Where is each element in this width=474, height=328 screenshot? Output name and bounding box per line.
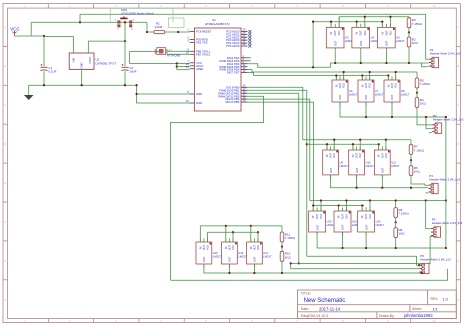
wire IN riser bbox=[312, 206, 314, 212]
resistor R1 21KOhm bbox=[147, 22, 165, 34]
svg-text:GND: GND bbox=[196, 92, 202, 96]
junction OUT bbox=[381, 187, 383, 189]
svg-text:1KΩ: 1KΩ bbox=[414, 170, 421, 174]
LM317 regulator U4 bbox=[352, 24, 379, 52]
wire bottom trunk to P5 pin1 bbox=[307, 256, 419, 265]
wire group3 OUT rail bbox=[331, 175, 429, 188]
svg-text:Sheet:: Sheet: bbox=[412, 307, 422, 311]
svg-text:G: G bbox=[457, 259, 459, 263]
wire top trunk to P1 bbox=[80, 13, 426, 15]
wire group5 riser upper bbox=[225, 226, 227, 242]
wire long bottom trunk bbox=[171, 269, 448, 280]
svg-text:IN: IN bbox=[361, 216, 364, 219]
wire PB5 to group4 IN rail bbox=[248, 102, 314, 205]
svg-text:PC6 RESET: PC6 RESET bbox=[196, 30, 212, 34]
wire ADJ rail to R11 bbox=[281, 226, 283, 231]
svg-text:OUT: OUT bbox=[330, 153, 333, 159]
svg-text:ADJ: ADJ bbox=[364, 30, 367, 35]
wire C2 to GND rail bbox=[124, 71, 126, 85]
svg-text:Header-Male 2.54_1x3: Header-Male 2.54_1x3 bbox=[430, 52, 461, 56]
svg-text:C: C bbox=[4, 103, 6, 107]
svg-text:OUT: OUT bbox=[390, 94, 394, 100]
junction OUT bbox=[228, 272, 230, 274]
svg-text:GND: GND bbox=[196, 101, 202, 105]
svg-text:VCC: VCC bbox=[10, 27, 20, 32]
junction IN bbox=[361, 74, 363, 76]
junction bbox=[43, 35, 45, 37]
wire ADJ riser bbox=[395, 72, 397, 80]
wire branch to pin2 trunk bbox=[290, 263, 292, 268]
junction ADJ bbox=[369, 71, 371, 73]
junction ADJ bbox=[369, 199, 371, 201]
svg-text:ADJ: ADJ bbox=[369, 82, 372, 87]
wire group5 riser upper bbox=[250, 226, 252, 242]
svg-text:OUT: OUT bbox=[253, 245, 256, 251]
wire ADJ rail to P4 pin1 bbox=[426, 201, 431, 229]
svg-text:OUT: OUT bbox=[365, 214, 368, 220]
svg-text:OUT: OUT bbox=[228, 245, 231, 251]
svg-text:IN: IN bbox=[199, 246, 202, 249]
wire ADJ rail to R5 bbox=[416, 72, 418, 77]
svg-text:IN: IN bbox=[352, 154, 355, 157]
wire ADJ riser bbox=[345, 201, 347, 212]
U1 left pin 2 PD0 RXD bbox=[187, 36, 208, 42]
junction IN bbox=[250, 225, 252, 227]
wire R8 to P3 pin1 bbox=[411, 177, 428, 186]
capacitor C2 10UF bbox=[121, 64, 136, 74]
annotation box near R1 bbox=[169, 18, 185, 28]
wire IN riser bbox=[335, 76, 337, 81]
junction OUT bbox=[365, 116, 367, 118]
wire crystal to XTAL1 bbox=[167, 50, 190, 52]
svg-text:IN: IN bbox=[326, 154, 329, 157]
junction bbox=[421, 272, 423, 274]
svg-text:1KΩ: 1KΩ bbox=[420, 102, 427, 106]
wire PD3 stub bbox=[248, 60, 251, 62]
wire ADJ riser bbox=[320, 201, 322, 212]
svg-text:IN: IN bbox=[381, 32, 384, 35]
svg-text:OUT: OUT bbox=[203, 245, 206, 251]
svg-text:Date:: Date: bbox=[301, 307, 309, 311]
U1 right pin 16 PWM DIG10 PB2 bbox=[218, 89, 248, 95]
svg-text:OUT: OUT bbox=[202, 256, 206, 262]
svg-text:1.0: 1.0 bbox=[443, 297, 448, 301]
wire VCC riser through C2 node bbox=[124, 22, 126, 66]
wire group4 ADJ rail bbox=[310, 200, 446, 202]
wire R2 down to OUT rail bbox=[408, 48, 410, 63]
svg-text:7.15KΩ: 7.15KΩ bbox=[399, 212, 410, 216]
svg-text:ADJ: ADJ bbox=[232, 244, 235, 249]
junction ADJ bbox=[385, 139, 387, 141]
svg-text:7.15KΩ: 7.15KΩ bbox=[285, 236, 296, 240]
wire OUT stub down bbox=[342, 232, 344, 248]
wire OUT stub down bbox=[253, 264, 255, 273]
svg-text:IN: IN bbox=[356, 32, 359, 35]
svg-text:OUT: OUT bbox=[253, 256, 257, 262]
svg-text:New Schematic: New Schematic bbox=[304, 298, 346, 304]
junction bbox=[410, 159, 412, 161]
U1 left pin 3 PD1 TXD bbox=[187, 39, 207, 45]
wire ADJ riser bbox=[338, 17, 340, 28]
svg-text:IN: IN bbox=[338, 216, 341, 219]
junction bbox=[135, 93, 137, 95]
svg-text:10UF: 10UF bbox=[129, 70, 137, 74]
wire IN riser bbox=[381, 22, 383, 28]
resistor R10 1K&#937; bbox=[280, 250, 291, 262]
svg-text:A: A bbox=[4, 25, 6, 29]
wire right trunk vertical bbox=[445, 117, 447, 248]
svg-text:ADJ: ADJ bbox=[389, 30, 392, 35]
junction ADJ bbox=[257, 231, 259, 233]
wire OUT stub down bbox=[385, 51, 387, 63]
svg-text:21KΩ: 21KΩ bbox=[155, 25, 163, 29]
wire R9 to R8 bbox=[395, 219, 397, 227]
svg-text:LM317: LM317 bbox=[340, 164, 349, 168]
wire group2 OUT rail bbox=[340, 102, 446, 117]
U1 right pin 13 DIG7 PD7 bbox=[227, 69, 248, 75]
svg-text:EasyEDA V4 10.3: EasyEDA V4 10.3 bbox=[301, 314, 328, 318]
wire R3 to R2 bbox=[408, 29, 410, 36]
svg-text:IN: IN bbox=[250, 246, 253, 249]
resistor R11 7.15K&#937; bbox=[280, 231, 295, 243]
junction bbox=[176, 62, 178, 64]
svg-text:OUT: OUT bbox=[339, 83, 342, 89]
wire GND rail bbox=[29, 84, 137, 86]
wire group2 IN rail bbox=[254, 75, 389, 77]
wire detour around SW1 label bbox=[110, 8, 173, 22]
wire IN riser bbox=[378, 144, 380, 150]
svg-text:1KΩ: 1KΩ bbox=[285, 255, 292, 259]
svg-text:ADJ: ADJ bbox=[385, 152, 388, 157]
junction IN bbox=[225, 225, 227, 227]
LM317 regulator U8 bbox=[384, 76, 410, 105]
svg-text:C: C bbox=[457, 103, 459, 107]
svg-text:VOUT: VOUT bbox=[88, 56, 92, 64]
wire IN riser bbox=[326, 144, 328, 150]
wire group5 riser lower bbox=[207, 232, 209, 242]
wire group1 OUT rail bbox=[331, 62, 422, 64]
U1 right pin 26 PC3 ADC3 bbox=[226, 36, 251, 42]
junction IN bbox=[312, 204, 314, 206]
wire to P1 pin3 bbox=[422, 63, 429, 67]
junction bbox=[312, 21, 314, 23]
junction bbox=[445, 247, 447, 249]
svg-text:johnlomba1993: johnlomba1993 bbox=[403, 313, 433, 318]
microcontroller U1 ATMEGA328P-PU bbox=[194, 18, 241, 111]
junction OUT bbox=[365, 247, 367, 249]
wire group1 IN rail bbox=[313, 21, 382, 23]
LM317 regulator U14 bbox=[358, 207, 385, 235]
svg-text:0.1UF: 0.1UF bbox=[48, 70, 56, 74]
svg-text:Y1: Y1 bbox=[168, 48, 172, 52]
junction ADJ bbox=[333, 139, 335, 141]
LM317 regulator U12 bbox=[309, 207, 336, 235]
svg-text:TITLE:: TITLE: bbox=[301, 292, 311, 296]
svg-text:REV:: REV: bbox=[431, 297, 439, 301]
wire C1 to GND rail bbox=[43, 71, 45, 85]
junction IN bbox=[330, 21, 332, 23]
wire group5 OUT rail to P5 bbox=[204, 264, 422, 273]
ground symbol bbox=[24, 85, 34, 100]
resistor R9 7.15K&#937; bbox=[394, 207, 409, 219]
wire ADJ riser bbox=[359, 140, 361, 150]
wire ADJ riser bbox=[333, 140, 335, 150]
svg-text:OUT: OUT bbox=[228, 256, 232, 262]
wire bottom trunk to P5 pin2 bbox=[291, 268, 420, 270]
wire ADJ rail to R7 bbox=[410, 140, 412, 144]
U1 left pin 1 PC6 RESET bbox=[187, 28, 211, 34]
header P1 Header-Male-2.54_1x3 bbox=[429, 48, 461, 68]
wire P3 pin3 stub bbox=[425, 192, 428, 194]
svg-text:ADJ: ADJ bbox=[207, 244, 210, 249]
wire PB2 down to bottom trunk bbox=[248, 93, 299, 263]
svg-text:ATTPCRB: ATTPCRB bbox=[167, 53, 180, 57]
junction bbox=[408, 62, 410, 64]
voltage regulator U2 LM7805 bbox=[69, 53, 116, 69]
svg-text:Header-Male 2.54_1x3: Header-Male 2.54_1x3 bbox=[429, 178, 460, 182]
svg-text:1/1: 1/1 bbox=[433, 307, 438, 311]
U1 left pin 22 GND bbox=[186, 99, 202, 105]
U1 left pin 8 GND bbox=[187, 90, 202, 96]
wire R8 to OUT rail bbox=[395, 239, 397, 248]
LM317 regulator U9 bbox=[323, 146, 349, 178]
U1 left pin 10 PB7 XTAL2 bbox=[186, 51, 211, 57]
svg-text:IN: IN bbox=[378, 154, 381, 157]
svg-text:IN: IN bbox=[387, 85, 390, 88]
header P5 Header-Male-2.54_1x3 bbox=[419, 254, 451, 274]
svg-text:OUT: OUT bbox=[364, 224, 368, 230]
junction ADJ bbox=[364, 16, 366, 18]
wire OUT stub down bbox=[228, 264, 230, 273]
svg-text:VIN: VIN bbox=[71, 58, 75, 63]
svg-text:LM317: LM317 bbox=[213, 254, 222, 258]
LM317 regulator U7 bbox=[358, 76, 384, 105]
wire top trunk to P1 pin1 bbox=[426, 14, 429, 59]
resistor R7 7.15K&#937; bbox=[409, 143, 424, 155]
wire PD2 stub bbox=[248, 57, 251, 59]
U1 left pin 9 PB6 XTAL1 bbox=[187, 48, 210, 54]
wire to U1 AREF bbox=[177, 69, 190, 71]
LM317 regulator U3 bbox=[326, 24, 353, 52]
wire ADJ riser bbox=[389, 17, 391, 28]
svg-text:OUT: OUT bbox=[356, 153, 359, 159]
wire GND rail to U1 pin22 bbox=[137, 85, 190, 103]
svg-text:OUT: OUT bbox=[359, 40, 363, 46]
svg-text:7.15KΩ: 7.15KΩ bbox=[412, 22, 423, 26]
wire PD7 jog to group2 IN rail bbox=[248, 73, 254, 76]
svg-text:LM317: LM317 bbox=[366, 164, 375, 168]
U1 right pin 23 PC0 ADC0 bbox=[226, 28, 251, 34]
junction ADJ bbox=[345, 199, 347, 201]
LM317 regulator U17 bbox=[247, 238, 273, 267]
svg-text:G: G bbox=[4, 259, 6, 263]
wire group5 upper rail bbox=[200, 225, 282, 227]
junction bbox=[79, 21, 81, 23]
junction bbox=[410, 187, 412, 189]
LM317 regulator U11 bbox=[374, 146, 400, 178]
resistor R3 7.15K&#937; bbox=[407, 17, 422, 29]
wire ADJ riser bbox=[369, 201, 371, 212]
junction bbox=[395, 247, 397, 249]
svg-text:LM317: LM317 bbox=[263, 254, 272, 258]
wire GND to U1 pin8 bbox=[137, 93, 190, 95]
junction OUT bbox=[391, 116, 393, 118]
svg-text:H: H bbox=[4, 298, 6, 302]
junction IN bbox=[378, 143, 380, 145]
wire ADJ riser bbox=[385, 140, 387, 150]
U1 left pin 20 AVCC bbox=[186, 62, 204, 68]
junction bbox=[124, 84, 126, 86]
svg-text:IN: IN bbox=[330, 32, 333, 35]
wire ADJ riser bbox=[364, 17, 366, 28]
wire R11 to R10 bbox=[281, 243, 283, 250]
wire trunk riser bbox=[79, 14, 81, 22]
wire group3 IN rail bbox=[307, 143, 379, 145]
junction IN bbox=[356, 21, 358, 23]
wire OUT rail to P1 pin2 bbox=[422, 62, 429, 64]
svg-text:LM317: LM317 bbox=[349, 92, 358, 96]
svg-text:OUT: OUT bbox=[334, 30, 337, 36]
svg-text:D: D bbox=[457, 142, 459, 146]
U1 right pin 15 PWM DIG9 PB1 bbox=[220, 87, 248, 93]
wire OUT stub down bbox=[381, 175, 383, 188]
junction bbox=[290, 262, 292, 264]
junction bbox=[408, 31, 410, 33]
LM317 regulator U6 bbox=[332, 76, 358, 105]
svg-text:OUT: OUT bbox=[355, 167, 359, 173]
junction IN bbox=[337, 204, 339, 206]
wire to U1 AVCC bbox=[177, 66, 190, 68]
svg-text:OUT: OUT bbox=[364, 94, 368, 100]
junction bbox=[445, 116, 447, 118]
wire R1 lead left bbox=[147, 31, 154, 33]
junction IN bbox=[381, 21, 383, 23]
junction IN bbox=[326, 143, 328, 145]
wire PB1 down to bottom trunk bbox=[248, 90, 307, 256]
U1 right pin 12 PWM DIG6 PD6 bbox=[219, 66, 247, 72]
wire PB3 loop to bottom trunk bbox=[171, 96, 264, 280]
svg-text:IN: IN bbox=[225, 246, 228, 249]
svg-text:6*6*1(SMD Tactile Switch: 6*6*1(SMD Tactile Switch bbox=[121, 12, 154, 16]
svg-text:Header-Male 2.54_1x3: Header-Male 2.54_1x3 bbox=[432, 221, 463, 225]
wire OUT stub down bbox=[356, 175, 358, 188]
svg-text:LM317: LM317 bbox=[401, 92, 410, 96]
svg-text:LM7805L-TF3-T: LM7805L-TF3-T bbox=[96, 61, 117, 65]
wire VCC node to U2 VIN bbox=[44, 37, 73, 53]
LM317 regulator U5 bbox=[378, 24, 405, 52]
wire group5 riser lower bbox=[232, 232, 234, 242]
junction bbox=[425, 199, 427, 201]
wire group1 OUT stub bbox=[334, 51, 336, 63]
junction OUT bbox=[385, 62, 387, 64]
svg-text:OUT: OUT bbox=[385, 30, 388, 36]
junction bbox=[124, 21, 126, 23]
wire IN riser bbox=[387, 76, 389, 81]
U1 right pin 14 DIG 8 PB0 bbox=[226, 84, 247, 90]
wire to U1 VCC bbox=[130, 62, 190, 64]
svg-text:IN: IN bbox=[312, 216, 315, 219]
junction bbox=[306, 143, 308, 145]
junction bbox=[425, 116, 427, 118]
junction bbox=[445, 199, 447, 201]
svg-text:OUT: OUT bbox=[341, 224, 345, 230]
junction bbox=[281, 245, 283, 247]
wire U2 GND down bbox=[81, 69, 83, 85]
junction ADJ bbox=[320, 199, 322, 201]
svg-text:AREF: AREF bbox=[196, 67, 204, 71]
header P4 Header-Male-2.54_1x3 bbox=[431, 218, 463, 238]
U1 right pin 24 PC1 ADC1 bbox=[226, 31, 251, 37]
svg-text:OUT: OUT bbox=[391, 83, 394, 89]
junction bbox=[395, 199, 397, 201]
junction bbox=[281, 272, 283, 274]
svg-text:1KΩ: 1KΩ bbox=[412, 41, 419, 45]
junction bbox=[312, 66, 314, 68]
junction IN bbox=[387, 74, 389, 76]
junction OUT bbox=[360, 62, 362, 64]
junction ADJ bbox=[232, 231, 234, 233]
junction bbox=[334, 62, 336, 64]
wire ADJ riser bbox=[343, 72, 345, 80]
wire U2 VOUT to C2 node bbox=[88, 41, 125, 53]
svg-text:LM317: LM317 bbox=[396, 39, 405, 43]
junction IN bbox=[352, 143, 354, 145]
wire OUT rail to P2 pin2 bbox=[426, 117, 432, 129]
junction ADJ bbox=[343, 71, 345, 73]
svg-text:2017-11-14: 2017-11-14 bbox=[319, 306, 341, 311]
title block bbox=[298, 290, 457, 319]
wire group1 ADJ rail bbox=[339, 16, 409, 18]
junction bbox=[177, 31, 179, 33]
wire IN riser bbox=[361, 206, 363, 212]
U1 right pin 11 PWM DIG5 PD5 bbox=[219, 63, 247, 69]
LM317 regulator U16 bbox=[222, 238, 248, 267]
svg-text:ADJ: ADJ bbox=[343, 82, 346, 87]
svg-text:A: A bbox=[457, 25, 459, 29]
wire crystal to XTAL2 bbox=[167, 53, 190, 55]
junction OUT bbox=[253, 272, 255, 274]
svg-text:PD1 TXD: PD1 TXD bbox=[196, 41, 208, 45]
wire R7 to R8 bbox=[410, 155, 412, 164]
wire group5 riser lower bbox=[257, 232, 259, 242]
svg-text:ADJ: ADJ bbox=[333, 152, 336, 157]
U1 right pin 27 PC4 ADC4 bbox=[226, 39, 251, 45]
junction bbox=[81, 84, 83, 86]
svg-text:GND: GND bbox=[80, 62, 84, 68]
wire bottom trunk to P4 pin3 bbox=[291, 236, 435, 263]
wire OUT stub down bbox=[365, 102, 367, 117]
junction IN bbox=[335, 74, 337, 76]
svg-text:PB7 XTAL2: PB7 XTAL2 bbox=[196, 52, 211, 56]
wire PB0 to group3 ADJ rail bbox=[248, 87, 303, 139]
wire P2 pin3 stub bbox=[429, 131, 432, 133]
wire R10 to OUT rail bbox=[281, 262, 283, 273]
svg-text:H: H bbox=[457, 298, 459, 302]
svg-text:OUT: OUT bbox=[360, 30, 363, 36]
header P2 Header-Male-2.54_1x3 bbox=[432, 114, 464, 134]
wire group3 ADJ rail bbox=[303, 139, 411, 141]
tactile switch SW1 bbox=[115, 8, 155, 30]
wire VCC riser bbox=[30, 22, 32, 36]
wire R1 to U1 RESET bbox=[165, 31, 190, 33]
junction bbox=[124, 40, 126, 42]
svg-text:7.15KΩ: 7.15KΩ bbox=[414, 148, 425, 152]
svg-text:D: D bbox=[4, 142, 6, 146]
svg-text:IN: IN bbox=[335, 85, 338, 88]
svg-text:1KΩ: 1KΩ bbox=[399, 232, 406, 236]
svg-text:ADJ: ADJ bbox=[369, 213, 372, 218]
junction bbox=[176, 65, 178, 67]
